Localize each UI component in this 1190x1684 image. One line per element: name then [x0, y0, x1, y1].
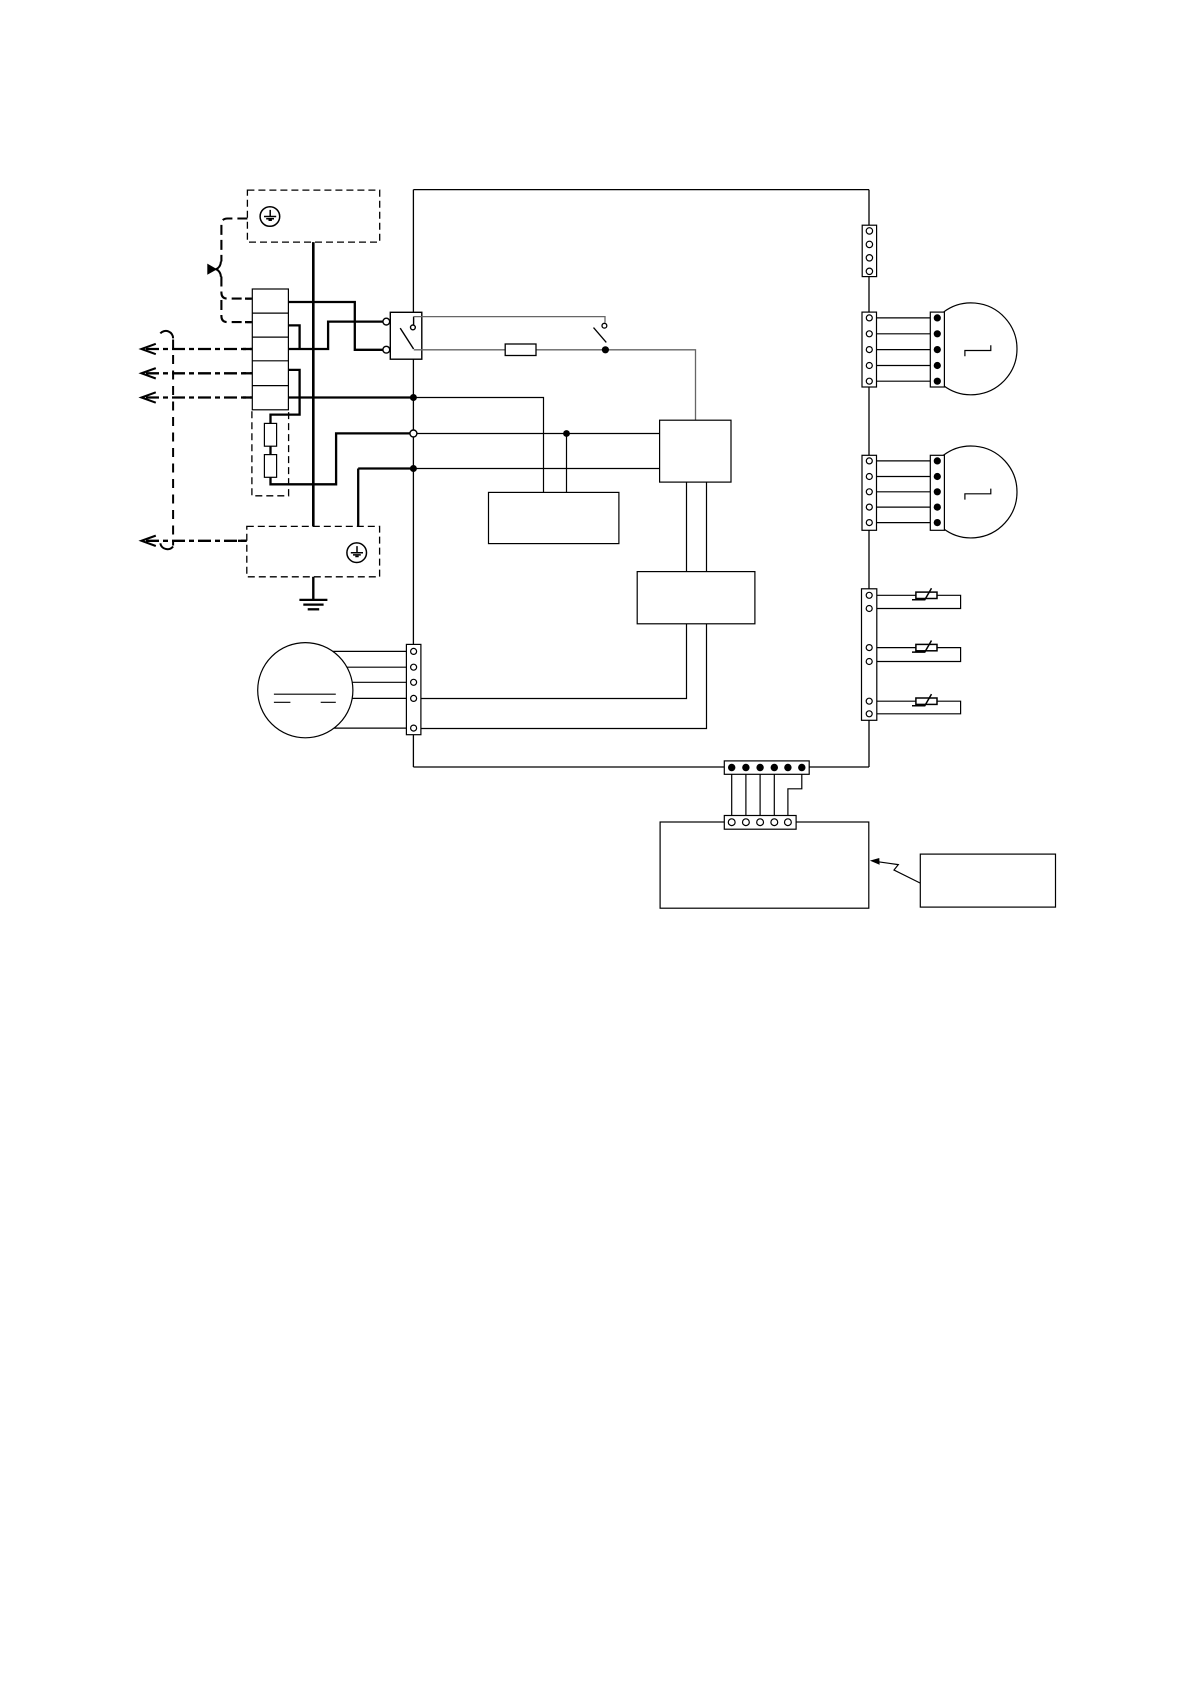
wires CN6 to CN7	[732, 774, 775, 815]
wire cell1 to main switch lower terminal	[288, 302, 382, 350]
switch terminal lower	[383, 346, 390, 353]
switch contact hook	[411, 317, 416, 330]
wire field earth line to filter box (dash-dot)	[142, 536, 247, 546]
neutral node on PCB edge	[410, 465, 417, 472]
cable sheath dashed line (vertical)	[160, 331, 173, 549]
power module box	[489, 492, 619, 543]
connector CN5 (thermistors)	[862, 589, 877, 721]
live node on PCB edge	[410, 394, 417, 401]
wire junction down to power module	[566, 434, 568, 493]
ground symbol	[299, 600, 327, 609]
thermal protector blade	[594, 328, 607, 343]
rectifier box	[660, 420, 731, 482]
earth terminal symbol in bottom box	[347, 543, 367, 563]
wire cell3 to main switch upper terminal	[288, 322, 382, 349]
fan motor 2 plug strip	[930, 455, 944, 530]
display control box	[660, 822, 869, 908]
switch terminal upper	[383, 318, 390, 325]
thermistor TH1	[912, 588, 937, 600]
fan motor FM2	[943, 446, 1017, 538]
valve symbol on supply cable	[208, 262, 221, 277]
wireless signal zigzag	[878, 862, 921, 883]
wire open node to rectifier box	[413, 433, 659, 435]
fuse F1	[264, 423, 276, 446]
remote controller box	[920, 854, 1055, 907]
wire field line N to TB4 (dash-dot)	[142, 368, 253, 378]
fan motor 2 internal symbol	[965, 489, 991, 500]
fan motor 1 internal symbol	[965, 345, 991, 356]
wire neutral node to rectifier box	[413, 468, 659, 470]
wire valve branch to TB2 (dashed)	[221, 300, 251, 322]
connector CN4 (fan motor 2)	[862, 455, 877, 530]
inverter box	[637, 572, 755, 624]
wire field line L to TB3 (dash-dot)	[142, 344, 253, 354]
thermistor loop 1	[877, 595, 961, 608]
fan motor 1 leads	[877, 318, 931, 381]
connector CN3 (fan motor 1)	[862, 312, 877, 387]
fan motor FM1	[943, 303, 1017, 395]
wire valve to TB1 (dashed)	[221, 277, 251, 299]
compressor connector CN1	[406, 644, 421, 734]
wire bottom box to ground	[312, 577, 314, 600]
wire power box to valve (dashed)	[221, 219, 247, 262]
wire jumper cell2 to cell3	[288, 325, 299, 349]
wire field line to TB5 (dash-dot)	[142, 392, 253, 402]
earth wire (thick vertical)	[312, 242, 315, 526]
thermistor TH2	[912, 641, 937, 653]
thermistor TH3	[912, 694, 937, 706]
bottom dashed box (noise filter / earth plate)	[247, 526, 380, 576]
fan motor 1 plug strip	[930, 312, 944, 387]
stubs of dashed supply wires at TB1 TB2	[245, 299, 252, 323]
neutral wire corner to bottom box	[358, 469, 413, 527]
connector CN6 (6 pin, to display pcb)	[724, 761, 809, 774]
wires rectifier to inverter	[687, 482, 707, 571]
fuse F3	[505, 344, 536, 356]
switch blade	[400, 328, 413, 349]
wires inverter to compressor connector	[421, 624, 707, 729]
thin wire from switch contact to thermal protector	[414, 317, 605, 323]
terminal block TB	[252, 289, 288, 410]
wire cell5 to PCB live node	[288, 396, 413, 398]
thin wire from switch lower through fuse to PCB box	[414, 350, 696, 420]
jogged wire pin6 to pin5	[788, 774, 802, 815]
main PCB outline (outdoor unit controller board)	[413, 190, 869, 767]
compressor leads	[333, 651, 410, 728]
main power switch / relay box S1	[390, 312, 422, 359]
fuse F2	[264, 455, 276, 478]
connector CN7 (5 pin, on display pcb)	[724, 816, 796, 830]
wire live node to power module	[413, 398, 543, 493]
connector CN2 (4 pin, top right)	[862, 225, 876, 276]
signal arrowhead	[870, 858, 880, 865]
junction node to power module	[563, 430, 570, 437]
power supply dashed box	[247, 190, 379, 242]
fan motor 2 leads	[877, 461, 931, 523]
wire cell4 through fuses to PCB open terminal	[271, 370, 410, 484]
thermal protector contact	[602, 323, 607, 328]
junction node (thermal protector to fused line)	[602, 346, 609, 353]
thermistor loop 2	[877, 648, 961, 662]
dashed enclosure around fuses	[252, 411, 289, 496]
compressor motor CM	[258, 643, 353, 738]
earth terminal symbol in power supply box	[260, 207, 280, 227]
thermistor loop 3	[877, 701, 961, 714]
compressor internal symbol	[274, 694, 336, 702]
